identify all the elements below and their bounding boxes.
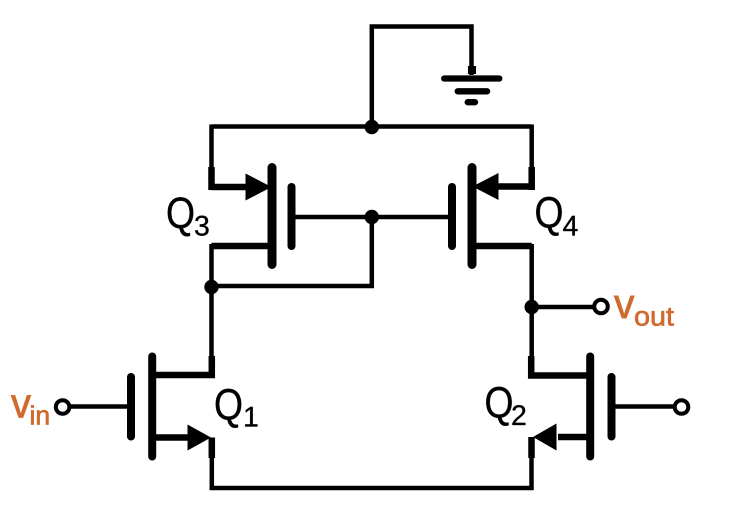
wire right rail down to Q4 source <box>529 125 534 191</box>
node gate junction <box>365 210 379 224</box>
wire Q1 source to bottom rail <box>210 455 215 490</box>
wire bottom rail (Q1 source to Q2 source) <box>210 486 534 491</box>
transistor Q2 (NMOS) <box>531 356 611 458</box>
label vin <box>11 395 48 424</box>
node Q3 drain junction <box>204 280 218 294</box>
wire supply rail (Q3 source to Q4 source) <box>212 124 532 129</box>
terminal vin (open circle) <box>56 400 70 414</box>
ground <box>444 66 499 102</box>
transistor Q3 (PMOS) <box>212 167 292 265</box>
wire vin terminal to Q1 gate <box>71 404 127 409</box>
wire Q2 source to bottom rail <box>529 455 534 490</box>
transistor Q1 (NMOS) <box>131 356 212 458</box>
label vout <box>614 296 674 326</box>
terminal vout (open circle) <box>594 300 608 314</box>
transistor Q4 (PMOS) <box>452 167 532 265</box>
wire gate node down and across to Q3 drain node <box>212 217 372 286</box>
wire output node to vout terminal <box>532 305 593 310</box>
label Q4 <box>536 197 577 236</box>
label Q2 <box>486 387 525 426</box>
wire Q3 gate to Q4 gate <box>295 215 449 220</box>
node output junction <box>525 300 539 314</box>
label Q3 <box>168 197 209 236</box>
wire Q3 drain down through node to Q1 drain <box>209 244 214 376</box>
wire Q4 drain down through output node to Q2 drain <box>529 244 534 374</box>
node A junction on supply rail <box>365 120 379 134</box>
label Q1 <box>216 389 258 428</box>
wire top rail loop (from node A up, across, down to ground) <box>372 27 472 127</box>
terminal right input (open circle) <box>675 400 689 414</box>
wire Q2 gate to right terminal <box>616 404 674 409</box>
wire left rail down to Q3 source <box>209 125 214 191</box>
